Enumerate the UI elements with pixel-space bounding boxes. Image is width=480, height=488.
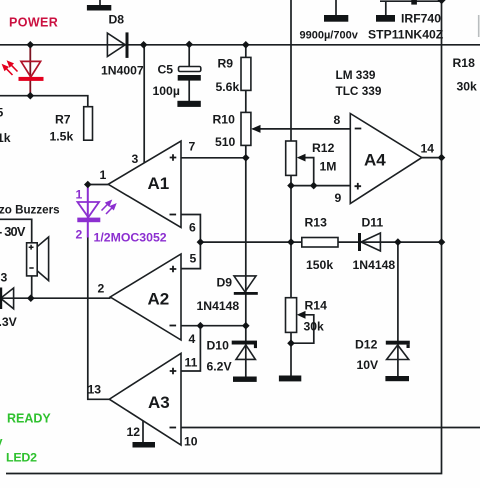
svg-text:1N4148: 1N4148	[197, 299, 240, 313]
svg-text:C5: C5	[158, 63, 174, 77]
svg-text:R10: R10	[213, 113, 236, 127]
svg-text:1N4148: 1N4148	[353, 258, 396, 272]
svg-text:R18: R18	[453, 56, 476, 70]
svg-text:12: 12	[127, 425, 141, 439]
svg-text:6.2V: 6.2V	[207, 360, 233, 374]
svg-text:.3V: .3V	[0, 315, 18, 329]
svg-text:A4: A4	[364, 151, 386, 170]
svg-text:R12: R12	[312, 141, 335, 155]
svg-text:D9: D9	[217, 276, 233, 290]
svg-text:1.5k: 1.5k	[50, 130, 74, 144]
svg-text:TLC 339: TLC 339	[336, 84, 382, 98]
svg-text:6: 6	[189, 221, 196, 235]
svg-text:STP11NK40Z: STP11NK40Z	[368, 28, 444, 42]
svg-text:5: 5	[0, 106, 4, 120]
svg-text:10V: 10V	[357, 358, 380, 372]
svg-text:30k: 30k	[304, 320, 325, 334]
svg-text:1k: 1k	[0, 131, 11, 145]
svg-text:3: 3	[1, 271, 8, 285]
svg-text:30k: 30k	[457, 80, 478, 94]
svg-text:13: 13	[88, 383, 102, 397]
svg-text:R14: R14	[305, 299, 328, 313]
svg-text:2: 2	[76, 228, 83, 242]
svg-text:D11: D11	[362, 216, 384, 230]
svg-text:14: 14	[421, 142, 435, 156]
svg-text:R7: R7	[55, 113, 71, 127]
svg-text:V: V	[0, 437, 3, 451]
svg-text:510: 510	[215, 135, 236, 149]
svg-text:9: 9	[335, 191, 342, 205]
svg-text:5: 5	[190, 252, 197, 266]
svg-text:3: 3	[132, 152, 139, 166]
svg-text:7: 7	[189, 140, 196, 154]
svg-text:LM 339: LM 339	[336, 68, 376, 82]
svg-text:11: 11	[185, 356, 198, 370]
svg-text:4: 4	[189, 332, 196, 346]
svg-text:R13: R13	[305, 216, 328, 230]
svg-text:1: 1	[76, 188, 83, 202]
svg-text:100µ: 100µ	[153, 84, 180, 98]
svg-text:A2: A2	[148, 290, 170, 309]
svg-text:IRF740: IRF740	[401, 12, 441, 26]
svg-text:D8: D8	[109, 13, 125, 27]
svg-text:1: 1	[100, 168, 107, 182]
svg-text:9900µ/700v: 9900µ/700v	[300, 30, 359, 42]
svg-text:LED2: LED2	[6, 451, 37, 465]
svg-text:D12: D12	[355, 338, 378, 352]
svg-text:1/2MOC3052: 1/2MOC3052	[94, 231, 167, 245]
svg-text:10: 10	[184, 435, 198, 449]
svg-text:1M: 1M	[320, 160, 337, 174]
svg-text:zo Buzzers: zo Buzzers	[0, 204, 60, 217]
svg-text:POWER: POWER	[9, 16, 58, 30]
svg-text:2: 2	[98, 282, 105, 296]
svg-text:A3: A3	[148, 393, 170, 412]
svg-text:8: 8	[334, 113, 341, 127]
svg-text:R9: R9	[218, 57, 234, 71]
svg-text:150k: 150k	[306, 258, 333, 272]
svg-text:1N4007: 1N4007	[101, 64, 144, 78]
svg-text:A1: A1	[148, 174, 170, 193]
svg-text:- 30V: - 30V	[0, 224, 26, 239]
svg-text:5.6k: 5.6k	[216, 80, 240, 94]
svg-text:D10: D10	[207, 339, 230, 353]
svg-text:READY: READY	[7, 412, 51, 426]
